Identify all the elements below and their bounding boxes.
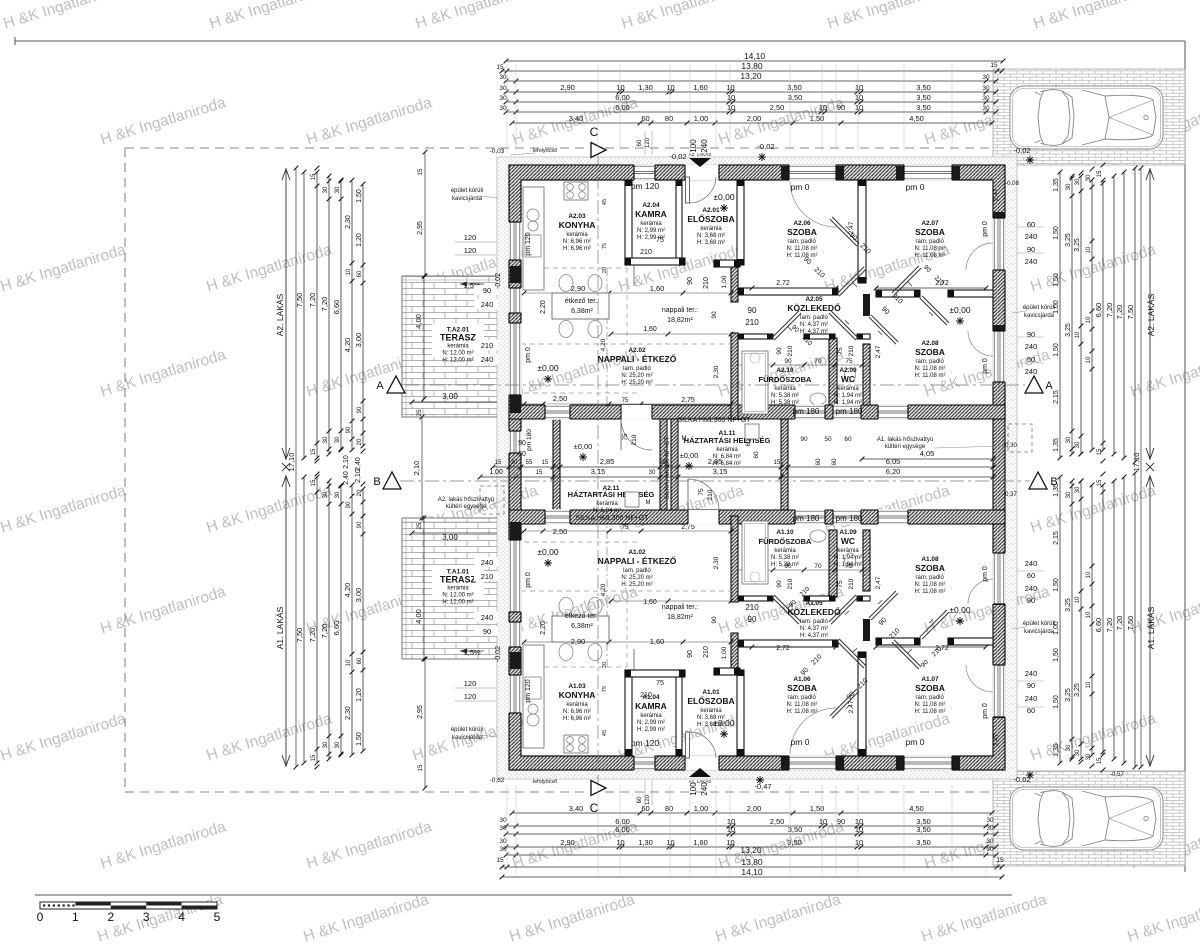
svg-text:N: 12,00 m²: N: 12,00 m² xyxy=(442,351,473,357)
svg-text:210: 210 xyxy=(640,249,652,256)
svg-text:60: 60 xyxy=(357,657,363,664)
svg-text:75: 75 xyxy=(622,525,629,531)
svg-text:1,50: 1,50 xyxy=(1053,343,1060,357)
svg-text:120: 120 xyxy=(645,794,651,805)
svg-text:H: 11,08 m²: H: 11,08 m² xyxy=(915,373,946,379)
svg-text:KONYHA: KONYHA xyxy=(559,220,596,230)
svg-text:KÖZLEKEDŐ: KÖZLEKEDŐ xyxy=(787,606,841,617)
svg-text:210: 210 xyxy=(745,603,759,612)
svg-text:240: 240 xyxy=(1025,232,1038,241)
svg-text:15: 15 xyxy=(496,64,504,71)
svg-text:210: 210 xyxy=(640,692,652,699)
svg-text:N: 11,08 m²: N: 11,08 m² xyxy=(915,702,946,708)
svg-text:1,20: 1,20 xyxy=(356,233,363,247)
svg-text:KAMRA: KAMRA xyxy=(635,209,667,219)
svg-text:210: 210 xyxy=(787,578,794,589)
svg-text:H: 6,96 m²: H: 6,96 m² xyxy=(563,716,591,722)
svg-text:KONYHA: KONYHA xyxy=(559,690,596,700)
svg-text:2,90: 2,90 xyxy=(560,838,575,847)
svg-text:60: 60 xyxy=(1027,355,1035,364)
svg-text:75: 75 xyxy=(656,680,664,687)
svg-text:30: 30 xyxy=(982,85,990,92)
svg-text:60: 60 xyxy=(831,458,838,466)
svg-text:A1.07: A1.07 xyxy=(921,676,939,683)
svg-text:SZOBA: SZOBA xyxy=(915,227,945,237)
svg-text:pm 120: pm 120 xyxy=(525,679,532,702)
svg-text:SZOBA: SZOBA xyxy=(915,683,945,693)
svg-text:H: 3,68 m²: H: 3,68 m² xyxy=(697,240,725,246)
svg-text:kerámia: kerámia xyxy=(596,501,618,507)
svg-text:2,95: 2,95 xyxy=(417,705,424,719)
svg-text:A2.09: A2.09 xyxy=(839,367,857,374)
svg-text:A2.10: A2.10 xyxy=(776,367,794,374)
svg-text:H: 5,38 m²: H: 5,38 m² xyxy=(771,562,799,568)
svg-text:3,25: 3,25 xyxy=(1065,598,1072,612)
svg-text:KAMRA: KAMRA xyxy=(635,701,667,711)
svg-text:N: 4,37 m²: N: 4,37 m² xyxy=(800,322,828,328)
svg-text:A1.10: A1.10 xyxy=(776,529,794,536)
svg-text:4,00: 4,00 xyxy=(414,609,423,624)
svg-text:-0,62: -0,62 xyxy=(490,777,505,784)
svg-text:A1.06: A1.06 xyxy=(793,676,811,683)
svg-text:N: 6,96 m²: N: 6,96 m² xyxy=(563,709,591,715)
svg-text:10: 10 xyxy=(666,83,674,92)
svg-text:H: 12,00 m²: H: 12,00 m² xyxy=(442,600,473,606)
svg-text:A2.08: A2.08 xyxy=(921,340,939,347)
svg-text:2,15: 2,15 xyxy=(1053,390,1060,404)
svg-text:pm 180: pm 180 xyxy=(793,407,820,416)
svg-text:±0,00: ±0,00 xyxy=(574,442,593,451)
svg-text:pm 0: pm 0 xyxy=(791,182,810,192)
svg-text:épület körüli: épület körüli xyxy=(1023,621,1055,627)
svg-text:90: 90 xyxy=(748,306,757,315)
svg-text:30: 30 xyxy=(982,74,990,81)
svg-text:2,90: 2,90 xyxy=(571,284,586,293)
svg-text:75: 75 xyxy=(837,580,844,588)
svg-text:18,82m²: 18,82m² xyxy=(667,614,693,621)
svg-text:2,30: 2,30 xyxy=(713,365,720,378)
svg-text:M: M xyxy=(682,436,687,442)
svg-text:30: 30 xyxy=(1066,744,1072,751)
svg-text:H: 25,20 m²: H: 25,20 m² xyxy=(621,582,652,588)
svg-text:15: 15 xyxy=(1097,479,1103,486)
svg-text:3,50: 3,50 xyxy=(916,838,931,847)
svg-text:17,10: 17,10 xyxy=(1132,453,1141,472)
svg-text:1,60: 1,60 xyxy=(643,326,657,333)
svg-text:15: 15 xyxy=(1097,448,1103,455)
svg-text:lam. padló: lam. padló xyxy=(916,695,944,701)
svg-text:2,75: 2,75 xyxy=(681,524,695,531)
svg-text:N: 12,00 m²: N: 12,00 m² xyxy=(442,593,473,599)
svg-text:lam. padló: lam. padló xyxy=(916,359,944,365)
svg-text:lefolyócső: lefolyócső xyxy=(533,779,557,785)
svg-text:A2. LAKÁS: A2. LAKÁS xyxy=(1146,293,1156,336)
svg-text:A1.09: A1.09 xyxy=(839,529,857,536)
svg-text:10: 10 xyxy=(1086,316,1092,323)
svg-text:2,72: 2,72 xyxy=(776,645,790,652)
svg-text:pm 0: pm 0 xyxy=(982,358,989,374)
svg-text:30: 30 xyxy=(335,436,341,443)
svg-text:nappali ter.:: nappali ter.: xyxy=(662,307,698,314)
svg-text:kerámia: kerámia xyxy=(774,386,796,392)
svg-text:30: 30 xyxy=(323,741,329,748)
svg-text:2,50: 2,50 xyxy=(553,527,568,536)
svg-text:NAPPALI - ÉTKEZŐ: NAPPALI - ÉTKEZŐ xyxy=(598,555,677,566)
svg-text:4: 4 xyxy=(178,910,185,924)
svg-text:1,50: 1,50 xyxy=(1053,648,1060,662)
svg-text:60: 60 xyxy=(745,439,752,447)
svg-text:lam. padló: lam. padló xyxy=(800,619,828,625)
svg-text:2,47: 2,47 xyxy=(993,188,1000,201)
svg-text:N: 11,08 m²: N: 11,08 m² xyxy=(787,246,818,252)
svg-text:3,00: 3,00 xyxy=(442,392,458,401)
svg-text:H: 11,08 m²: H: 11,08 m² xyxy=(915,589,946,595)
svg-text:90: 90 xyxy=(346,501,352,508)
svg-text:15: 15 xyxy=(774,460,781,466)
svg-text:60: 60 xyxy=(637,796,643,803)
svg-text:6,05: 6,05 xyxy=(886,457,901,466)
svg-text:70: 70 xyxy=(814,358,822,365)
svg-text:H: 4,37 m²: H: 4,37 m² xyxy=(800,329,828,335)
svg-text:±0,00: ±0,00 xyxy=(713,718,734,728)
svg-text:18,82m²: 18,82m² xyxy=(667,317,693,324)
svg-text:75: 75 xyxy=(602,243,608,249)
svg-text:3,50: 3,50 xyxy=(916,93,931,102)
svg-text:-0,57: -0,57 xyxy=(1110,772,1124,778)
svg-text:±0,00: ±0,00 xyxy=(680,451,699,460)
svg-text:N: 11,08 m²: N: 11,08 m² xyxy=(787,702,818,708)
svg-text:15: 15 xyxy=(311,448,317,455)
svg-text:30: 30 xyxy=(986,838,994,845)
svg-text:kerámia: kerámia xyxy=(640,221,662,227)
svg-text:120: 120 xyxy=(464,246,477,255)
svg-text:2,75: 2,75 xyxy=(681,397,695,404)
svg-text:15: 15 xyxy=(418,764,424,771)
svg-text:210: 210 xyxy=(703,646,710,658)
svg-text:30: 30 xyxy=(499,95,507,102)
svg-text:2,00: 2,00 xyxy=(747,114,762,123)
svg-text:210: 210 xyxy=(481,341,494,350)
svg-text:30: 30 xyxy=(1075,486,1081,493)
svg-text:2,30: 2,30 xyxy=(345,215,352,229)
svg-text:60: 60 xyxy=(753,451,760,459)
svg-text:60: 60 xyxy=(815,458,822,466)
svg-text:pm 0: pm 0 xyxy=(906,737,925,747)
svg-text:-0,02: -0,02 xyxy=(669,152,686,161)
svg-text:lam. padló: lam. padló xyxy=(623,366,651,372)
svg-text:A2. LAKÁS: A2. LAKÁS xyxy=(275,293,285,336)
svg-text:210: 210 xyxy=(745,318,759,327)
svg-text:pm 0: pm 0 xyxy=(982,221,989,237)
svg-text:SZOBA: SZOBA xyxy=(915,347,945,357)
svg-text:120: 120 xyxy=(464,233,477,242)
svg-text:A2.07: A2.07 xyxy=(921,220,939,227)
svg-text:A: A xyxy=(376,380,384,392)
svg-text:1,50: 1,50 xyxy=(356,732,363,746)
svg-text:60: 60 xyxy=(518,451,526,458)
svg-text:25: 25 xyxy=(417,522,423,529)
svg-text:25: 25 xyxy=(417,409,423,416)
svg-text:3,40: 3,40 xyxy=(569,804,584,813)
svg-text:15: 15 xyxy=(1097,170,1103,177)
svg-text:30: 30 xyxy=(1075,441,1081,448)
svg-text:KÖZLEKEDŐ: KÖZLEKEDŐ xyxy=(787,302,841,313)
svg-text:-0,08: -0,08 xyxy=(1005,181,1019,187)
svg-text:A1. LAKÁS: A1. LAKÁS xyxy=(1146,606,1156,649)
svg-text:7,20: 7,20 xyxy=(308,293,317,308)
svg-text:ELŐSZOBA: ELŐSZOBA xyxy=(687,695,734,706)
svg-text:13,80: 13,80 xyxy=(741,857,763,867)
svg-text:10: 10 xyxy=(1075,331,1081,338)
svg-text:A1. LAKÁS: A1. LAKÁS xyxy=(275,606,285,649)
svg-text:SILKA HML300 NF+GT: SILKA HML300 NF+GT xyxy=(678,417,752,424)
svg-text:6,60: 6,60 xyxy=(1094,618,1103,633)
svg-text:240: 240 xyxy=(481,558,494,567)
svg-text:14,10: 14,10 xyxy=(741,867,763,877)
svg-text:lam. padló: lam. padló xyxy=(916,239,944,245)
svg-text:120: 120 xyxy=(464,679,477,688)
svg-text:30: 30 xyxy=(1075,178,1081,185)
svg-text:1,60: 1,60 xyxy=(650,637,665,646)
svg-text:pm 0: pm 0 xyxy=(982,703,989,719)
svg-text:4,20: 4,20 xyxy=(343,583,352,598)
svg-text:2,15: 2,15 xyxy=(1053,531,1060,545)
svg-text:3,00: 3,00 xyxy=(442,533,458,542)
svg-text:3,50: 3,50 xyxy=(787,83,802,92)
svg-text:1,60: 1,60 xyxy=(693,83,708,92)
svg-text:10: 10 xyxy=(1086,246,1092,253)
svg-text:SZOBA: SZOBA xyxy=(787,683,817,693)
svg-text:H: 6,96 m²: H: 6,96 m² xyxy=(563,246,591,252)
svg-text:6,00: 6,00 xyxy=(615,103,630,112)
svg-text:10: 10 xyxy=(819,103,827,112)
svg-text:70: 70 xyxy=(814,563,822,570)
svg-text:30: 30 xyxy=(1075,749,1081,756)
svg-text:N: 1,94 m²: N: 1,94 m² xyxy=(834,393,862,399)
svg-text:kerámia: kerámia xyxy=(447,344,469,350)
svg-text:N: 5,38 m²: N: 5,38 m² xyxy=(771,555,799,561)
svg-text:A1.02: A1.02 xyxy=(628,549,646,556)
svg-text:10: 10 xyxy=(727,817,735,826)
svg-text:3,50: 3,50 xyxy=(787,838,802,847)
svg-text:A2.01: A2.01 xyxy=(702,207,720,214)
svg-text:1,00: 1,00 xyxy=(721,646,728,659)
svg-text:pm 180: pm 180 xyxy=(836,514,863,523)
svg-text:10: 10 xyxy=(855,817,863,826)
svg-text:80: 80 xyxy=(665,804,673,813)
svg-text:80: 80 xyxy=(665,114,673,123)
svg-text:2,20: 2,20 xyxy=(540,300,547,314)
svg-text:2,00: 2,00 xyxy=(747,804,762,813)
svg-text:pm 120: pm 120 xyxy=(525,232,532,255)
svg-text:H: 12,00 m²: H: 12,00 m² xyxy=(442,358,473,364)
svg-text:30: 30 xyxy=(499,74,507,81)
svg-text:1,35: 1,35 xyxy=(1053,743,1060,757)
svg-text:1,5%: 1,5% xyxy=(463,648,480,657)
svg-text:10: 10 xyxy=(855,93,863,102)
svg-text:4,50: 4,50 xyxy=(909,114,924,123)
svg-text:2,20: 2,20 xyxy=(540,621,547,635)
svg-text:1,50: 1,50 xyxy=(1053,226,1060,240)
svg-text:15: 15 xyxy=(996,857,1004,864)
svg-text:4,20: 4,20 xyxy=(343,338,352,353)
svg-text:kavicsjárda: kavicsjárda xyxy=(1024,313,1055,319)
svg-text:30: 30 xyxy=(660,460,667,466)
svg-text:30: 30 xyxy=(499,85,507,92)
svg-text:15: 15 xyxy=(536,470,543,476)
svg-text:SZOBA: SZOBA xyxy=(787,227,817,237)
svg-text:kavicsjárda: kavicsjárda xyxy=(452,735,483,741)
svg-text:SILKA HML300 NF+GT: SILKA HML300 NF+GT xyxy=(576,515,650,522)
svg-text:H: 2,99 m²: H: 2,99 m² xyxy=(637,727,665,733)
svg-text:6,00: 6,00 xyxy=(615,817,630,826)
svg-text:45: 45 xyxy=(602,199,608,205)
svg-text:N: 6,96 m²: N: 6,96 m² xyxy=(563,239,591,245)
svg-text:15: 15 xyxy=(311,754,317,761)
svg-text:1,50: 1,50 xyxy=(1053,578,1060,592)
svg-text:60: 60 xyxy=(1027,706,1035,715)
svg-text:90: 90 xyxy=(687,277,694,285)
svg-text:-0,37: -0,37 xyxy=(1003,492,1017,498)
svg-text:210: 210 xyxy=(631,434,638,445)
svg-text:6,60: 6,60 xyxy=(332,621,341,636)
svg-text:1,00: 1,00 xyxy=(1053,300,1060,314)
svg-text:H: 11,08 m²: H: 11,08 m² xyxy=(915,709,946,715)
svg-text:pm 180: pm 180 xyxy=(836,407,863,416)
svg-text:N: 11,08 m²: N: 11,08 m² xyxy=(915,246,946,252)
svg-text:2,40: 2,40 xyxy=(355,457,362,471)
svg-text:H: 4,37 m²: H: 4,37 m² xyxy=(800,633,828,639)
svg-text:15: 15 xyxy=(496,857,504,864)
svg-text:15: 15 xyxy=(495,460,502,466)
svg-text:3,40: 3,40 xyxy=(569,114,584,123)
svg-text:6,00: 6,00 xyxy=(615,93,630,102)
svg-text:50: 50 xyxy=(824,436,832,443)
svg-text:H: 1,94 m²: H: 1,94 m² xyxy=(834,400,862,406)
svg-text:pm 0: pm 0 xyxy=(791,737,810,747)
svg-text:A2.03: A2.03 xyxy=(568,213,586,220)
svg-text:kerámia: kerámia xyxy=(700,708,722,714)
svg-text:pm 180: pm 180 xyxy=(526,429,533,451)
svg-text:kerámia: kerámia xyxy=(716,447,738,453)
svg-text:4,50: 4,50 xyxy=(909,804,924,813)
svg-text:90: 90 xyxy=(1027,681,1035,690)
svg-text:30: 30 xyxy=(1086,174,1092,181)
svg-text:TERASZ: TERASZ xyxy=(440,575,477,585)
svg-text:10: 10 xyxy=(1086,571,1092,578)
svg-text:kerámia: kerámia xyxy=(566,232,588,238)
svg-text:2,50: 2,50 xyxy=(770,817,785,826)
svg-text:H: 25,20 m²: H: 25,20 m² xyxy=(621,380,652,386)
svg-text:N: 11,08 m²: N: 11,08 m² xyxy=(915,366,946,372)
svg-text:240: 240 xyxy=(1025,694,1038,703)
svg-text:90: 90 xyxy=(346,426,352,433)
svg-text:15: 15 xyxy=(418,168,424,175)
svg-text:210: 210 xyxy=(848,578,855,589)
svg-text:-0,03: -0,03 xyxy=(490,148,505,155)
svg-text:30: 30 xyxy=(511,460,518,466)
svg-text:7,20: 7,20 xyxy=(320,297,329,312)
svg-text:1,00: 1,00 xyxy=(721,275,728,288)
svg-text:10: 10 xyxy=(1086,681,1092,688)
svg-text:épület körüli: épület körüli xyxy=(451,188,483,194)
svg-text:3,25: 3,25 xyxy=(1065,233,1072,247)
svg-text:N: 5,38 m²: N: 5,38 m² xyxy=(771,393,799,399)
svg-text:20: 20 xyxy=(357,489,363,496)
svg-text:-0,02: -0,02 xyxy=(757,142,774,151)
svg-text:A1. lakás hőszivattyú: A1. lakás hőszivattyú xyxy=(877,437,933,443)
svg-text:210: 210 xyxy=(703,277,710,289)
svg-text:60: 60 xyxy=(1027,220,1035,229)
svg-text:15: 15 xyxy=(542,460,549,466)
svg-text:1,30: 1,30 xyxy=(638,83,653,92)
svg-text:75: 75 xyxy=(656,237,664,244)
svg-text:240: 240 xyxy=(700,139,709,153)
svg-text:15: 15 xyxy=(311,479,317,486)
svg-text:3,25: 3,25 xyxy=(1065,323,1072,337)
svg-text:lam. padló: lam. padló xyxy=(623,568,651,574)
svg-text:H: 1,94 m²: H: 1,94 m² xyxy=(834,562,862,568)
svg-text:10: 10 xyxy=(346,268,352,275)
svg-text:6,60: 6,60 xyxy=(1094,303,1103,318)
svg-text:240: 240 xyxy=(1025,367,1038,376)
svg-text:7,50: 7,50 xyxy=(295,293,304,308)
svg-text:100: 100 xyxy=(689,139,698,153)
svg-text:120: 120 xyxy=(464,692,477,701)
svg-text:90: 90 xyxy=(784,358,792,365)
svg-text:pm 120: pm 120 xyxy=(631,181,660,191)
svg-text:A2. lakás hőszivattyú: A2. lakás hőszivattyú xyxy=(438,497,494,503)
svg-text:30: 30 xyxy=(499,838,507,845)
svg-text:3,25: 3,25 xyxy=(1074,238,1081,252)
svg-text:10: 10 xyxy=(1086,356,1092,363)
svg-text:A2.06: A2.06 xyxy=(793,220,811,227)
svg-text:30: 30 xyxy=(649,470,656,476)
svg-text:2,47: 2,47 xyxy=(875,345,882,358)
svg-text:-0,02: -0,02 xyxy=(495,273,502,289)
svg-text:A2.05: A2.05 xyxy=(805,296,823,303)
svg-text:B: B xyxy=(373,476,380,488)
svg-text:H: 5,38 m²: H: 5,38 m² xyxy=(771,400,799,406)
svg-text:5: 5 xyxy=(214,910,221,924)
svg-text:240: 240 xyxy=(1025,584,1038,593)
svg-text:pm 180: pm 180 xyxy=(793,514,820,523)
svg-text:1,30: 1,30 xyxy=(638,838,653,847)
svg-text:N: 2,99 m²: N: 2,99 m² xyxy=(637,720,665,726)
svg-text:N: 6,84 m²: N: 6,84 m² xyxy=(593,508,621,514)
svg-text:A2.02: A2.02 xyxy=(628,347,646,354)
svg-text:60: 60 xyxy=(1027,571,1035,580)
svg-text:10: 10 xyxy=(616,838,624,847)
svg-text:75: 75 xyxy=(845,358,853,365)
svg-text:30: 30 xyxy=(1066,491,1072,498)
svg-text:-0,02: -0,02 xyxy=(495,646,502,662)
svg-text:0: 0 xyxy=(37,910,44,924)
svg-text:240: 240 xyxy=(700,782,709,796)
svg-text:75: 75 xyxy=(837,347,844,355)
svg-text:7,20: 7,20 xyxy=(1115,616,1124,631)
svg-text:N: 11,08 m²: N: 11,08 m² xyxy=(915,582,946,588)
svg-text:C: C xyxy=(590,125,599,139)
svg-text:10: 10 xyxy=(819,817,827,826)
svg-text:TERASZ: TERASZ xyxy=(440,333,477,343)
svg-text:1,50: 1,50 xyxy=(1053,273,1060,287)
svg-text:1,35: 1,35 xyxy=(1053,178,1060,192)
svg-text:pm 0: pm 0 xyxy=(906,182,925,192)
svg-text:10: 10 xyxy=(616,83,624,92)
svg-text:2,10: 2,10 xyxy=(412,461,421,476)
svg-text:NAPPALI - ÉTKEZŐ: NAPPALI - ÉTKEZŐ xyxy=(598,353,677,364)
